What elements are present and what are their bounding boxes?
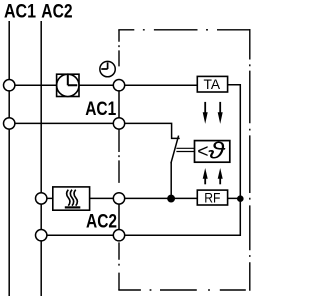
timer switch U1 (clock dial circle) <box>57 74 79 96</box>
wire: terminal 3 to terminal 4 jumper <box>118 198 120 235</box>
device terminal 4 <box>113 230 124 241</box>
svg-text:ϑ: ϑ <box>208 137 226 163</box>
enclosure dash-dot top edge <box>118 29 250 31</box>
device terminal 3 <box>113 193 124 204</box>
svg-text:RF: RF <box>204 189 220 205</box>
svg-text:AC1: AC1 <box>4 0 36 22</box>
wire: AC1 feed to timer and terminal 1 <box>9 84 197 86</box>
terminal circle 2 (left rail AC1) <box>4 118 15 129</box>
device terminal 2 <box>113 118 124 129</box>
arrow down 2 (TA to thermostat) <box>218 102 223 124</box>
heater wavy line 1 <box>67 190 70 206</box>
wire: AC1 supply vertical line <box>8 21 10 296</box>
thermostat box U2 <box>195 141 230 163</box>
arrow up 2 (RF to thermostat) <box>218 168 223 184</box>
svg-text:<: < <box>197 140 208 162</box>
timer U1 clock hands <box>68 75 78 86</box>
enclosure dash-dot right edge <box>249 29 251 291</box>
device terminal 1 <box>113 80 124 91</box>
svg-text:AC2: AC2 <box>86 211 117 233</box>
box TA (outdoor temperature input) <box>197 76 227 92</box>
junction dot (RF / TA return) <box>237 195 244 202</box>
wire: switch to RF junction <box>170 163 172 199</box>
terminal circle 3 (AC2 rail) <box>36 193 47 204</box>
heater element box <box>53 187 90 210</box>
heater base bar <box>65 206 81 208</box>
heater wavy line 3 <box>74 190 77 206</box>
wire: AC2 return via terminal 4 up to TA <box>41 85 240 235</box>
svg-text:TA: TA <box>204 76 221 92</box>
clock icon hands <box>101 62 107 69</box>
wire: AC1 feed to terminal 2 and switch <box>9 123 180 138</box>
box RF (floor sensor) <box>197 190 227 205</box>
arrow up 1 (RF to thermostat) <box>203 168 208 184</box>
wire: AC2 supply vertical line <box>40 21 42 296</box>
clock icon (time program) <box>100 61 115 76</box>
wire: heater line to RF (terminal 3) <box>41 197 240 199</box>
enclosure dash-dot left edge, corner to terminal 1 <box>118 30 120 79</box>
enclosure dash-dot bottom edge <box>118 289 250 291</box>
junction dot (switch / RF wire) <box>167 195 175 203</box>
svg-text:AC1: AC1 <box>85 98 116 120</box>
terminal circle 4 (AC2 rail) <box>36 230 47 241</box>
thermostat linkage (double line) <box>176 148 194 151</box>
timer switch U1 (square) <box>57 74 79 96</box>
wire: terminal 1 to terminal 2 jumper <box>118 85 120 123</box>
heater wavy line 2 <box>70 190 73 206</box>
terminal circle 1 (left rail AC1) <box>4 80 15 91</box>
switch S1 blade (thermostat contact) <box>171 136 179 164</box>
svg-text:AC2: AC2 <box>41 0 72 22</box>
enclosure dash-dot left edge, terminal 4 to bottom corner <box>118 242 120 290</box>
arrow down 1 (TA to thermostat) <box>203 102 208 124</box>
enclosure dash-dot left edge, between terminal 2 and terminal 3 <box>118 130 120 193</box>
